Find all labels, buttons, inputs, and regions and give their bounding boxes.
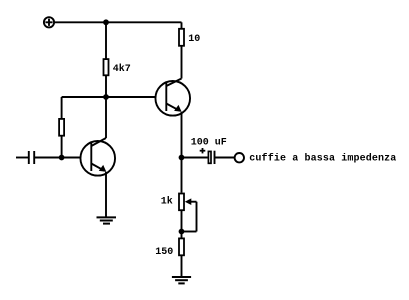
wire R4 to ground [181,255,183,278]
wire supply rail [55,21,182,23]
wire top rail down to R3 [181,22,183,30]
resistor R2 (bias, unlabeled) [59,119,64,136]
positive supply terminal [44,17,54,27]
transistor Q1 [80,138,115,176]
wire from top junction to R1 [105,22,107,59]
wire output node to C2 [182,157,208,159]
capacitor C2 100uF [208,151,234,164]
junction base node [103,94,109,100]
wire Q1 emitter down [105,172,107,218]
wire R2 to input node [61,135,63,158]
transistor Q2 [155,79,190,116]
junction input node [59,155,65,161]
wire pot to R4 [181,210,183,240]
wire R3 to Q2 collector [181,45,183,79]
svg-text:4k7: 4k7 [113,63,131,75]
wire Q1 collector up [105,97,107,138]
junction pot bottom [179,229,185,235]
svg-text:150: 150 [155,247,173,258]
wire base rail to Q2 [62,96,156,98]
resistor R1 4k7 [104,59,109,75]
output terminal [235,153,244,162]
wire R1 to base node [105,75,107,97]
svg-text:cuffie a bassa impedenza: cuffie a bassa impedenza [249,153,396,165]
resistor R4 150 [179,238,184,255]
ground output divider [172,277,191,283]
svg-text:1k: 1k [161,196,173,208]
resistor R3 10 [179,29,184,46]
potentiometer 1k [179,194,197,232]
svg-text:100 uF: 100 uF [191,137,227,148]
ground Q1 emitter [97,217,117,223]
wire input node to Q1 base [62,157,81,159]
plus polarity mark [200,148,206,153]
svg-text:10: 10 [188,34,200,45]
junction output node [179,155,185,161]
wire down to bias resistor [61,97,63,120]
wire Q2 emitter down to pot [181,112,183,193]
capacitor C1 input [16,151,62,164]
junction top node [103,19,109,25]
